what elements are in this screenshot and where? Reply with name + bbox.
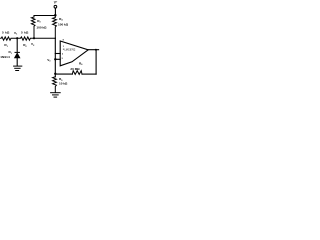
resistor R3 [31,16,35,39]
svg-text:10 kΩ: 10 kΩ [59,81,68,85]
wire feedback down [95,50,97,74]
svg-text:V+: V+ [54,1,58,5]
node V2 [33,37,35,39]
node output [95,49,97,51]
svg-text:5 kΩ: 5 kΩ [21,31,29,35]
svg-text:3: 3 [62,58,64,60]
svg-text:V1: V1 [14,31,18,36]
node pin3 input [54,58,56,60]
svg-text:R4: R4 [59,17,63,22]
svg-text:R3: R3 [37,19,41,24]
diode D1 [15,51,19,53]
wire top rail [34,15,55,17]
wire diode branch [16,38,18,52]
node feedback [54,73,56,75]
svg-text:R6: R6 [79,61,83,66]
node V1 [16,37,18,39]
wire input column [54,38,56,77]
resistor R1 [1,37,17,40]
svg-text:2: 2 [62,54,64,56]
svg-text:V2: V2 [31,42,35,47]
op-amp U1 [60,41,88,66]
svg-text:100 kΩ: 100 kΩ [58,23,69,27]
ground (under D1) [14,65,22,67]
svg-text:5 kΩ: 5 kΩ [2,31,10,35]
svg-text:1N914: 1N914 [0,55,10,59]
svg-text:R2: R2 [23,43,27,48]
wire stub pin3 [55,58,60,60]
svg-text:R1: R1 [4,43,8,48]
svg-text:100 kΩ: 100 kΩ [36,26,47,30]
resistor R5 [53,77,57,93]
wire feedback rail left [55,73,72,75]
node junction dots [16,14,97,75]
wire stub pin2 [55,53,60,55]
wire feedback rail right [82,73,96,75]
terminal V+ [54,5,57,8]
svg-text:8: 8 [63,39,65,41]
wire V+ drop [54,8,56,15]
wire output [88,49,98,51]
svg-text:20 MΩ: 20 MΩ [70,67,80,71]
resistor R6 [72,71,82,75]
svg-text:LMC6762: LMC6762 [64,48,76,52]
svg-text:V3: V3 [47,58,51,63]
ground (under R5) [51,92,61,94]
node V+ junction [54,14,57,16]
resistor R2 [17,37,55,40]
resistor R4 [53,16,57,39]
